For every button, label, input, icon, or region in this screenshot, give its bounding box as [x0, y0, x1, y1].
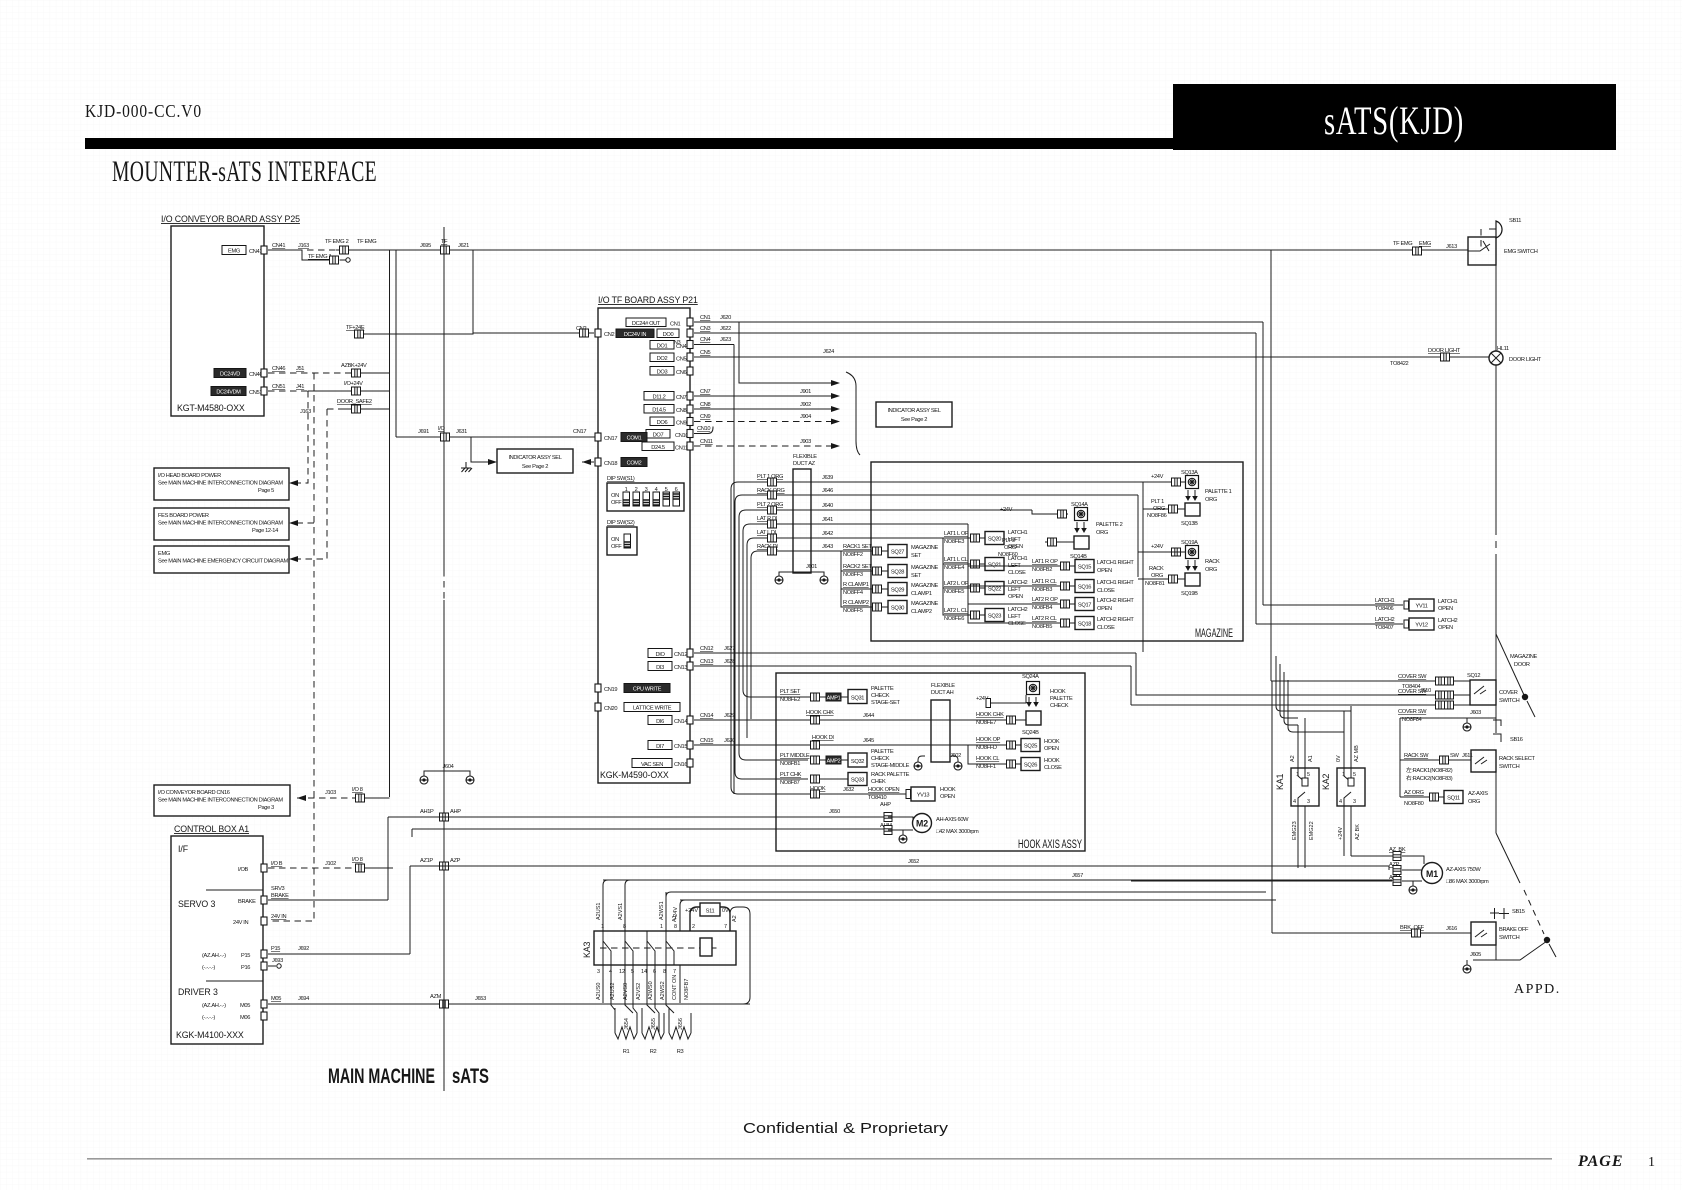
connector TF EMG 2: [340, 246, 349, 254]
lamp HL11 DOOR LIGHT: [1489, 346, 1542, 365]
plug TF EMG 1: [302, 250, 350, 264]
svg-text:TO8422: TO8422: [1390, 361, 1409, 367]
svg-text:DI3: DI3: [656, 665, 664, 671]
svg-text:2: 2: [692, 924, 695, 930]
pin 24V IN: [233, 917, 267, 926]
svg-text:+24V: +24V: [1151, 544, 1164, 550]
svg-text:APPD.: APPD.: [1514, 982, 1561, 997]
wire CN13 J628: [694, 659, 1131, 666]
svg-text:TF EMG: TF EMG: [1393, 241, 1412, 247]
wire CN3 J622: [694, 326, 1256, 333]
svg-text:DO1: DO1: [657, 344, 668, 350]
svg-text:NO8FE3: NO8FE3: [944, 539, 964, 545]
svg-text:SET: SET: [911, 573, 922, 579]
svg-text:CLOSE: CLOSE: [1097, 625, 1115, 631]
wire CN41 TF EMG to EMG switch: [268, 239, 1468, 250]
svg-text:DO6: DO6: [657, 420, 668, 426]
svg-text:See MAIN MACHINE INTERCONNECTI: See MAIN MACHINE INTERCONNECTION DIAGRAM: [158, 798, 283, 804]
svg-text:+24V: +24V: [1338, 827, 1344, 840]
svg-text:DOOR LIGHT: DOOR LIGHT: [1509, 357, 1542, 363]
ref box INDICATOR ASSY SEL 2: [876, 402, 952, 427]
wire riser x758: [750, 558, 752, 719]
svg-text:R3: R3: [677, 1049, 684, 1055]
svg-text:OPEN: OPEN: [1097, 606, 1112, 612]
connector DOOR_SAFE2: [352, 405, 361, 413]
svg-text:NO8FF2: NO8FF2: [843, 552, 863, 558]
footer rule: [87, 1158, 1552, 1160]
dip switch S2: [607, 520, 637, 555]
svg-text:CN4: CN4: [700, 337, 711, 343]
svg-text:CN51: CN51: [249, 390, 262, 396]
svg-text:CN15: CN15: [674, 744, 687, 750]
svg-text:SW: SW: [1450, 753, 1459, 759]
svg-text:24V IN: 24V IN: [271, 914, 287, 920]
dip levers S1 5-6 on: [663, 492, 670, 506]
svg-text:sATS(KJD): sATS(KJD): [1324, 98, 1464, 143]
svg-text:A1: A1: [1308, 755, 1314, 762]
svg-text:CN5: CN5: [700, 350, 711, 356]
svg-text:J642: J642: [822, 531, 833, 537]
sensor SQ19A: [1151, 540, 1199, 559]
svg-text:ORG: ORG: [1004, 545, 1016, 551]
switch EMG SWITCH: [1468, 229, 1538, 265]
svg-text:CN16: CN16: [674, 762, 687, 768]
svg-text:VAC SEN: VAC SEN: [641, 762, 663, 768]
svg-text:J602: J602: [950, 753, 961, 759]
connector RACK DI: [768, 547, 777, 555]
svg-text:OPEN: OPEN: [1097, 568, 1112, 574]
svg-text:AHP: AHP: [450, 809, 461, 815]
svg-text:J693: J693: [272, 958, 283, 964]
pin M05: [202, 1000, 267, 1009]
svg-text:LAT2 L OP: LAT2 L OP: [944, 581, 969, 587]
svg-text:NO8FE2: NO8FE2: [780, 697, 800, 703]
arrow into CN18: [582, 459, 594, 465]
svg-text:COVER: COVER: [1499, 690, 1518, 696]
svg-text:LATCH1 RIGHT: LATCH1 RIGHT: [1097, 560, 1134, 566]
svg-text:NO8FFD: NO8FFD: [976, 745, 997, 751]
svg-text:NO8FE6: NO8FE6: [944, 616, 964, 622]
wire BRK_OFF row: [1272, 925, 1471, 937]
connector AZM J653: [440, 1000, 449, 1008]
wire SRV3 BRAKE: [268, 886, 388, 900]
KA3 feed risers: [603, 880, 685, 931]
svg-text:I/O 8: I/O 8: [352, 787, 363, 793]
svg-text:ON: ON: [611, 493, 619, 499]
svg-text:AZBK+24V: AZBK+24V: [341, 363, 367, 369]
svg-text:NO8F81: NO8F81: [1145, 581, 1165, 587]
svg-text:LATCH2 RIGHT: LATCH2 RIGHT: [1097, 598, 1134, 604]
svg-text:COM1: COM1: [627, 436, 642, 442]
ref box FES BOARD POWER: [154, 508, 298, 540]
svg-text:1: 1: [601, 924, 604, 930]
group PLT CHK SQ33: [780, 772, 910, 786]
KA3 bottom wires: [603, 965, 680, 1033]
svg-text:J657: J657: [1072, 873, 1083, 879]
label D11.2 CN7: [644, 392, 693, 402]
svg-text:I/O CONVEYOR BOARD CN16: I/O CONVEYOR BOARD CN16: [158, 790, 230, 796]
svg-text:RACK2 SET: RACK2 SET: [843, 564, 872, 570]
svg-text:J623: J623: [720, 337, 731, 343]
stub CN10 curve: [694, 426, 713, 434]
svg-text:NO8FF5: NO8FF5: [843, 608, 863, 614]
svg-text:AZM: AZM: [430, 994, 442, 1000]
svg-text:CN10: CN10: [697, 426, 710, 432]
svg-text:CN1: CN1: [670, 322, 681, 328]
connector PLT 1 ORG: [768, 478, 777, 486]
svg-text:CN13: CN13: [674, 665, 687, 671]
svg-text:CN8: CN8: [700, 402, 711, 408]
wire PLT2 jog to SQ14A: [1032, 510, 1068, 514]
header rule bar: [85, 138, 1174, 149]
svg-text:CN8: CN8: [676, 408, 687, 414]
group MAGAZINE SET SQ28: [841, 551, 938, 579]
label DIO CN12: [648, 649, 693, 659]
switch SB16 symbol: [1493, 705, 1523, 743]
connector DOOR LIGHT: [1441, 353, 1450, 361]
dip switch S1: [607, 476, 684, 511]
svg-text:CN12: CN12: [700, 646, 713, 652]
svg-text:CN41: CN41: [249, 249, 262, 255]
svg-text:MAGAZINE: MAGAZINE: [911, 545, 938, 551]
svg-text:STAGE-MIDDLE: STAGE-MIDDLE: [871, 763, 910, 769]
svg-text:STAGE-SET: STAGE-SET: [871, 700, 901, 706]
svg-text:SB15: SB15: [1512, 909, 1525, 915]
svg-text:INDICATOR ASSY SEL: INDICATOR ASSY SEL: [887, 408, 940, 414]
wire A1 right channel to J653: [730, 907, 750, 1004]
svg-text:J103: J103: [325, 790, 336, 796]
svg-text:J904: J904: [800, 414, 811, 420]
svg-text:CLOSE: CLOSE: [1008, 621, 1026, 627]
wire latch1 feed: [1262, 322, 1264, 605]
group LATCH2 LEFT OPEN SQ22: [943, 564, 1027, 600]
flexible duct AZ: [793, 454, 817, 573]
svg-text:4: 4: [1339, 799, 1342, 805]
svg-text:PAGE: PAGE: [1577, 1153, 1623, 1170]
connector RACK ORG: [768, 491, 777, 499]
svg-text:J163: J163: [300, 409, 311, 415]
svg-text:DI7: DI7: [656, 744, 664, 750]
svg-text:J601: J601: [806, 564, 817, 570]
svg-text:NO8FE4: NO8FE4: [944, 565, 964, 571]
svg-text:SQ32: SQ32: [851, 759, 864, 765]
svg-text:CHECK: CHECK: [871, 693, 890, 699]
svg-text:J691: J691: [418, 429, 429, 435]
box MAGAZINE: [871, 462, 1243, 641]
svg-text:ORG: ORG: [1205, 567, 1217, 573]
svg-text:Page 12-14: Page 12-14: [252, 528, 278, 534]
sensor SQ14A: [1071, 502, 1088, 521]
svg-text:J613: J613: [1446, 244, 1457, 250]
wire RACK ORG J646: [735, 488, 1138, 502]
svg-text:I/O CONVEYOR BOARD ASSY P25: I/O CONVEYOR BOARD ASSY P25: [161, 214, 300, 224]
label DO3 CN6: [650, 367, 693, 377]
svg-text:BRAKE: BRAKE: [271, 893, 289, 899]
svg-text:J903: J903: [800, 439, 811, 445]
svg-text:CN18: CN18: [604, 461, 617, 467]
svg-text:HOOK CHK: HOOK CHK: [806, 710, 834, 716]
svg-text:SQ23: SQ23: [988, 614, 1001, 620]
wire vertical bus x389: [389, 250, 391, 797]
plug J693: [268, 958, 283, 968]
svg-text:I/OB: I/OB: [238, 867, 249, 873]
wire PLT 2 ORG return: [998, 538, 1074, 558]
svg-text:LATCH2: LATCH2: [1008, 580, 1027, 586]
svg-text:OPEN: OPEN: [1044, 746, 1059, 752]
wire CN1 J620: [694, 315, 1263, 322]
svg-text:SWITCH: SWITCH: [1499, 935, 1520, 941]
board CONTROL BOX A1: [171, 824, 263, 1044]
svg-text:YV12: YV12: [1415, 623, 1428, 629]
svg-text:DUCT AH: DUCT AH: [931, 690, 954, 696]
svg-text:ON: ON: [611, 537, 619, 543]
svg-text:J616: J616: [1446, 926, 1457, 932]
svg-text:LATTICE WRITE: LATTICE WRITE: [633, 706, 672, 712]
svg-text:PALETTE: PALETTE: [871, 749, 894, 755]
svg-text:PLT 1: PLT 1: [1151, 499, 1164, 505]
svg-text:J630: J630: [724, 738, 735, 744]
svg-text:A2WS2: A2WS2: [660, 981, 666, 1000]
svg-text:EMG: EMG: [1419, 241, 1431, 247]
svg-text:LATCH1: LATCH1: [1008, 530, 1027, 536]
svg-text:(AZ.AH.-.-): (AZ.AH.-.-): [202, 953, 226, 959]
svg-text:CHECK: CHECK: [1050, 703, 1069, 709]
arrows palette2: [1074, 522, 1122, 536]
svg-text:NO8FE5: NO8FE5: [944, 589, 964, 595]
svg-text:CN14: CN14: [674, 719, 687, 725]
svg-text:CLOSE: CLOSE: [1097, 588, 1115, 594]
branch to indicator sel arrow: [461, 437, 497, 472]
svg-text:CN11: CN11: [675, 446, 688, 452]
svg-text:AZP: AZP: [450, 858, 461, 864]
wire cover sw row3: [1131, 666, 1470, 723]
wire CN1 branch arrow: [739, 322, 840, 386]
svg-text:P15: P15: [271, 946, 280, 952]
svg-text:右:RACK2(NO8F83): 右:RACK2(NO8F83): [1406, 774, 1453, 782]
svg-text:TF+24E: TF+24E: [346, 325, 365, 331]
label DO2 CN5: [650, 353, 693, 363]
connector AZBK+24V: [352, 369, 361, 377]
group PLT SET AMP1 SQ31: [780, 686, 901, 706]
wire RACK ORG return: [1138, 566, 1185, 587]
svg-text:INDICATOR ASSY SEL: INDICATOR ASSY SEL: [508, 455, 561, 461]
svg-text:3: 3: [597, 969, 600, 975]
wire M05 J694 AZM J653: [268, 994, 750, 1004]
label DO1 CN4: [650, 341, 693, 351]
svg-text:RACK1 SET: RACK1 SET: [843, 544, 872, 550]
emergency stop SB11: [1489, 218, 1521, 238]
svg-text:NO8F86: NO8F86: [1147, 513, 1167, 519]
svg-text:DC24VD: DC24VD: [220, 372, 240, 378]
svg-text:7: 7: [673, 969, 676, 975]
connector LAT R DI: [768, 520, 777, 528]
svg-text:DO0: DO0: [663, 332, 674, 338]
svg-text:AH1P: AH1P: [420, 809, 434, 815]
svg-text:J652: J652: [908, 859, 919, 865]
ground below AZM: [1409, 881, 1417, 894]
motor M1: [1422, 863, 1490, 886]
svg-text:KGT-M4580-OXX: KGT-M4580-OXX: [177, 403, 245, 413]
wire J691 branch vertical x396: [395, 250, 397, 437]
svg-text:AZ ORG: AZ ORG: [1404, 790, 1424, 796]
wire CN9 J904 dashed: [694, 414, 840, 425]
svg-text:MAGAZINE: MAGAZINE: [911, 601, 938, 607]
svg-text:(AZ.AH.-.-): (AZ.AH.-.-): [202, 1003, 226, 1009]
svg-text:See Page 2: See Page 2: [522, 464, 548, 470]
wire LAT R riser: [967, 524, 969, 566]
brake diagonal: [1496, 833, 1556, 957]
svg-text:8: 8: [623, 924, 626, 930]
svg-text:J51: J51: [296, 366, 304, 372]
svg-text:SQ25: SQ25: [1024, 744, 1037, 750]
svg-text:A2VS1: A2VS1: [618, 903, 624, 920]
svg-text:OPEN: OPEN: [940, 794, 955, 800]
svg-text:KJD-000-CC.V0: KJD-000-CC.V0: [85, 101, 202, 121]
svg-text:OPEN: OPEN: [1438, 625, 1453, 631]
svg-text:SQ24A: SQ24A: [1022, 674, 1039, 680]
svg-text:AZ-AXIS 750W: AZ-AXIS 750W: [1446, 867, 1481, 873]
svg-text:PLT SET: PLT SET: [780, 689, 801, 695]
wire AZP to motor: [1389, 862, 1422, 875]
KA3 feed labels: [596, 901, 679, 930]
svg-text:1: 1: [660, 924, 663, 930]
svg-text:See MAIN MACHINE INTERCONNECTI: See MAIN MACHINE INTERCONNECTION DIAGRAM: [158, 521, 283, 527]
svg-text:P16: P16: [241, 965, 250, 971]
svg-text:NO8FB7: NO8FB7: [684, 979, 690, 1000]
arrows palette1: [1185, 489, 1231, 503]
connector I/O+24V: [352, 387, 361, 395]
wire J603 ground: [1400, 710, 1496, 731]
note rack1 rack2: [1406, 766, 1453, 782]
svg-text:EMG: EMG: [228, 249, 240, 255]
wire row 900: [680, 899, 1276, 901]
svg-text:NO8FB1: NO8FB1: [780, 761, 800, 767]
connector TF+24E: [346, 325, 365, 338]
wire PLT 1 ORG J639: [731, 474, 1185, 489]
motor M2: [888, 814, 979, 836]
svg-text:NO8FF4: NO8FF4: [843, 590, 863, 596]
wire +24V SQ19A feed: [1137, 495, 1139, 577]
wire J694 drop link: [742, 1003, 744, 1005]
svg-text:SWITCH: SWITCH: [1499, 764, 1520, 770]
svg-text:HOOK OPEN: HOOK OPEN: [868, 787, 900, 793]
wire riser x746: [739, 517, 808, 760]
svg-text:I/F: I/F: [178, 844, 189, 854]
connector TF J695: [441, 246, 450, 254]
svg-text:J901: J901: [800, 389, 811, 395]
svg-text:A1: A1: [672, 915, 678, 922]
svg-text:YV13: YV13: [917, 793, 930, 799]
svg-text:J41: J41: [296, 384, 304, 390]
svg-text:M1: M1: [1426, 869, 1438, 879]
svg-text:Page 5: Page 5: [258, 488, 274, 494]
sensor SQ19B rack: [1181, 573, 1200, 597]
svg-text:J629: J629: [724, 713, 735, 719]
svg-text:CN9: CN9: [676, 421, 687, 427]
svg-text:DI6: DI6: [656, 719, 664, 725]
svg-text:J639: J639: [822, 475, 833, 481]
wire AZM to motor: [1131, 875, 1422, 886]
svg-text:J655: J655: [651, 1018, 657, 1030]
svg-text:PLT MIDDLE: PLT MIDDLE: [780, 753, 810, 759]
+24V stub: [976, 695, 1026, 708]
svg-text:CLOSE: CLOSE: [1044, 765, 1062, 771]
svg-text:1: 1: [1342, 772, 1345, 778]
svg-text:5: 5: [1353, 772, 1356, 778]
pin P16: [202, 962, 267, 971]
wire AHP J650: [388, 809, 888, 817]
dip lever S2: [624, 534, 631, 548]
connector AHP motor: [880, 802, 892, 822]
svg-text:SQ18: SQ18: [1078, 622, 1091, 628]
svg-text:HOOK AXIS ASSY: HOOK AXIS ASSY: [1018, 839, 1082, 851]
ground J604: [420, 764, 474, 784]
svg-text:OPEN: OPEN: [1438, 606, 1453, 612]
connector I/O J691: [441, 433, 450, 441]
svg-text:LEFT: LEFT: [1008, 614, 1021, 620]
wire rack select feed: [1399, 718, 1401, 797]
relay KA2 wires: [1336, 706, 1361, 856]
svg-text:NO8F80: NO8F80: [1404, 801, 1424, 807]
wire J103 I/O 8 dashed: [297, 787, 390, 801]
wire CN7 J901: [694, 389, 840, 399]
arrows rack org: [1185, 559, 1220, 573]
svg-text:OPEN: OPEN: [1008, 594, 1023, 600]
svg-text:J604: J604: [443, 764, 454, 770]
svg-text:M05: M05: [240, 1003, 250, 1009]
svg-text:CONT ON: CONT ON: [672, 975, 678, 1000]
switch BRAKE OFF SWITCH: [1471, 922, 1529, 945]
svg-text:J627: J627: [724, 646, 735, 652]
svg-text:J102: J102: [325, 861, 336, 867]
svg-text:NO8FB4: NO8FB4: [1032, 605, 1052, 611]
dip levers S1 1-4 off: [623, 492, 630, 506]
svg-text:1: 1: [1648, 1155, 1655, 1170]
svg-text:SQ19B: SQ19B: [1181, 591, 1198, 597]
svg-text:SB11: SB11: [1509, 218, 1521, 224]
svg-text:A2US1: A2US1: [596, 903, 602, 920]
svg-text:SQ24B: SQ24B: [1022, 730, 1039, 736]
svg-text:See Page 2: See Page 2: [901, 417, 927, 423]
valve YV12 LATCH2 OPEN: [1256, 617, 1457, 631]
svg-text:I/O B: I/O B: [271, 861, 283, 867]
group MAGAZINE CLAMP2 SQ30: [841, 589, 938, 615]
svg-text:AHP: AHP: [880, 802, 891, 808]
svg-text:5: 5: [1307, 772, 1310, 778]
svg-text:DC24# OUT: DC24# OUT: [632, 321, 661, 327]
sensor SQ24B hook palette check: [1022, 711, 1041, 736]
pin CN51: [261, 387, 267, 395]
svg-text:YV11: YV11: [1415, 604, 1427, 610]
svg-text:SQ11: SQ11: [1447, 796, 1460, 802]
pin CN17 COM1: [595, 433, 647, 443]
svg-text:AZ1P: AZ1P: [420, 858, 433, 864]
text MAIN MACHINE / sATS: [328, 1065, 489, 1088]
svg-text:ORG: ORG: [1468, 799, 1480, 805]
svg-text:SQ31: SQ31: [851, 696, 864, 702]
svg-text:SQ26: SQ26: [1024, 763, 1037, 769]
wire right rail upper: [1495, 238, 1497, 351]
svg-text:J692: J692: [298, 946, 309, 952]
svg-text:J640: J640: [822, 503, 833, 509]
svg-text:sATS: sATS: [452, 1065, 489, 1088]
label VAC SEN CN16: [632, 759, 693, 769]
svg-text:DRIVER 3: DRIVER 3: [178, 987, 218, 997]
svg-text:M06: M06: [240, 1015, 250, 1021]
relay KA1 wires: [1290, 718, 1315, 868]
svg-text:CONTROL BOX A1: CONTROL BOX A1: [174, 824, 249, 834]
svg-text:LATCH2: LATCH2: [1375, 617, 1394, 623]
